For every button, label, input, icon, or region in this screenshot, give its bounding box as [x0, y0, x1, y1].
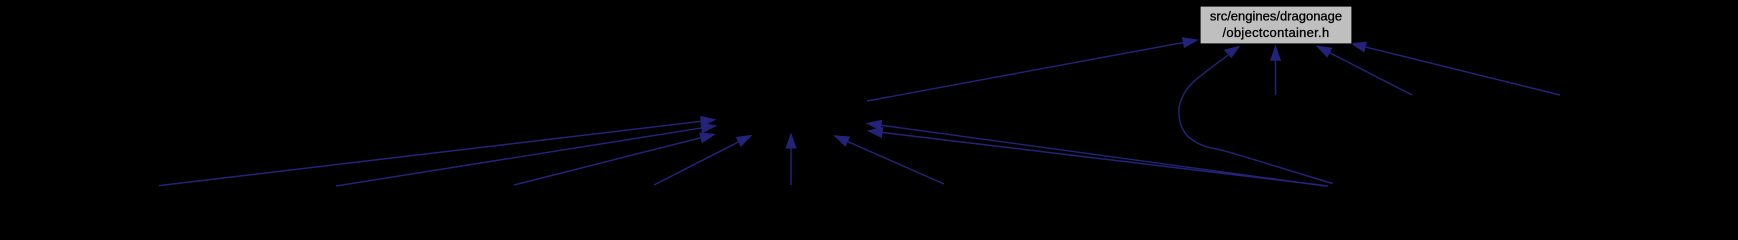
wire edge E9 curve	[1179, 55, 1333, 183]
arrowhead E10	[1182, 37, 1199, 48]
node src/engines/dragonage/objectcontainer.h	[1200, 6, 1352, 44]
arrowhead E7	[866, 120, 883, 131]
svg-text:/objectcontainer.h: /objectcontainer.h	[1223, 25, 1330, 40]
arrowhead E9	[1224, 46, 1241, 59]
wire edge E6	[847, 141, 945, 184]
wire edge E13	[1364, 47, 1560, 95]
arrowhead E8	[867, 127, 884, 138]
wire edge E4	[654, 141, 740, 185]
arrowhead E11	[1270, 45, 1281, 61]
wire edge E7	[880, 125, 1326, 186]
wire edge E8	[881, 132, 1328, 186]
wire edge E1	[159, 121, 702, 185]
arrowhead E3	[699, 133, 716, 144]
arrowhead E5	[785, 133, 796, 149]
arrowhead E6	[833, 135, 850, 147]
wire edge E10	[867, 42, 1184, 101]
wire edge E12	[1329, 52, 1413, 95]
svg-text:src/engines/dragonage: src/engines/dragonage	[1210, 9, 1342, 24]
arrowhead E2	[700, 123, 717, 134]
wire edge E2	[336, 128, 703, 186]
wire edge E3	[514, 138, 702, 186]
wire edge E5	[790, 147, 792, 185]
arrowhead E13	[1350, 42, 1367, 53]
arrowhead E12	[1316, 46, 1333, 58]
arrowhead E4	[736, 135, 753, 147]
arrowhead E1	[700, 116, 717, 127]
wire edge E11	[1275, 59, 1277, 95]
